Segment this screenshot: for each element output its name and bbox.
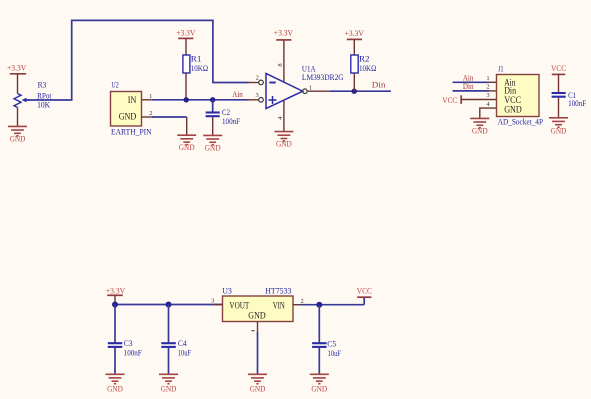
svg-text:3: 3 [486, 92, 489, 99]
svg-text:10KΩ: 10KΩ [191, 63, 208, 73]
pin 3 (U3 VOUT) [211, 298, 222, 305]
svg-text:1: 1 [486, 75, 489, 82]
ground (J1 pin 4) [470, 118, 489, 135]
op-amp U1A LM393DR2G [259, 64, 344, 109]
wire R2 bottom [353, 73, 355, 91]
svg-text:10K: 10K [37, 99, 51, 109]
ground (C1) [549, 118, 568, 136]
svg-text:100nF: 100nF [124, 348, 142, 358]
svg-text:+3.3V: +3.3V [274, 28, 293, 37]
svg-text:Din: Din [372, 80, 386, 90]
junction (R1 / Ain) [184, 97, 189, 102]
svg-text:U3: U3 [222, 286, 232, 296]
svg-text:R3: R3 [38, 79, 47, 89]
ground (U3 GND) [248, 374, 267, 393]
svg-text:10uF: 10uF [328, 348, 341, 358]
power VCC (J1 pin 3) [442, 95, 496, 105]
resistor R1 [183, 54, 208, 73]
wire rail (+3.3V to U3 pin 3) [115, 304, 223, 306]
power +3.3V (R1) [176, 28, 195, 55]
junction (R2 / output) [352, 89, 357, 94]
pin 4 (U1 GND) [277, 100, 284, 131]
svg-text:GND: GND [311, 384, 327, 393]
pin 4 (J1 GND) [480, 108, 497, 118]
connector J1 AD_Socket_4P [497, 64, 544, 127]
ground (U1 pin 4) [274, 132, 293, 149]
svg-text:GND: GND [504, 104, 522, 114]
svg-text:8: 8 [277, 63, 284, 66]
svg-text:AD_Socket_4P: AD_Socket_4P [498, 117, 544, 127]
svg-text:1: 1 [309, 84, 312, 91]
capacitor C4 [161, 305, 191, 375]
svg-text:+3.3V: +3.3V [7, 64, 27, 73]
svg-text:10KΩ: 10KΩ [359, 63, 376, 73]
svg-text:3: 3 [255, 92, 258, 99]
svg-text:GND: GND [551, 126, 567, 135]
wire R1 bottom [185, 73, 187, 100]
wire Din stub (J1 pin 2) [453, 90, 497, 92]
capacitor C5 [312, 305, 341, 375]
svg-text:4: 4 [486, 101, 490, 108]
svg-text:1: 1 [149, 93, 152, 100]
svg-text:2: 2 [149, 110, 152, 117]
power +3.3V (R2) [345, 29, 364, 55]
svg-text:GND: GND [179, 143, 195, 152]
svg-text:HT7533: HT7533 [265, 286, 291, 296]
pin 2 (U2 GND) + wire [142, 110, 187, 135]
svg-text:GND: GND [250, 384, 266, 393]
svg-text:100nF: 100nF [222, 116, 240, 126]
svg-text:VCC: VCC [504, 95, 521, 105]
svg-text:EARTH_PIN: EARTH_PIN [111, 126, 152, 136]
ground (C4) [159, 374, 178, 393]
svg-text:U2: U2 [111, 80, 118, 90]
svg-text:2: 2 [486, 84, 489, 91]
power VCC (U3 VIN side) [357, 287, 372, 305]
svg-text:+3.3V: +3.3V [176, 28, 195, 37]
pin numbers (J1) [486, 75, 490, 108]
capacitor C1 [552, 90, 587, 118]
svg-text:IN: IN [128, 95, 137, 105]
svg-text:GND: GND [205, 143, 221, 152]
pin 1 (U1 output) + wire [307, 84, 391, 91]
junction (C2 / Ain) [210, 97, 215, 102]
potentiometer R3 [14, 79, 52, 109]
svg-text:GND: GND [10, 134, 26, 143]
svg-text:Din: Din [463, 81, 474, 91]
wire net Ain (U2 pin1 to U1 pin3) [152, 99, 249, 101]
component U2 EARTH_PIN [111, 80, 152, 137]
svg-text:10uF: 10uF [178, 348, 191, 358]
power +3.3V (R3 pot) [7, 64, 27, 94]
svg-text:+3.3V: +3.3V [345, 29, 364, 38]
svg-text:VOUT: VOUT [229, 300, 249, 310]
svg-text:GND: GND [248, 310, 266, 320]
svg-text:VIN: VIN [273, 300, 286, 310]
junction (C3 / rail) [112, 302, 118, 308]
svg-text:100nF: 100nF [568, 98, 586, 108]
svg-text:VCC: VCC [357, 287, 372, 296]
ground (C5) [310, 374, 329, 393]
ground (U2 pin 2) [177, 135, 196, 152]
svg-text:4: 4 [277, 116, 284, 120]
capacitor C3 [108, 305, 142, 375]
svg-text:LM393DR2G: LM393DR2G [302, 72, 344, 82]
wire wiper to op-amp pin 2 [26, 20, 249, 100]
svg-text:VCC: VCC [551, 64, 566, 73]
ground (C2) [203, 135, 222, 152]
wire Ain stub (J1 pin 1) [453, 81, 497, 83]
ground (C3) [106, 374, 125, 393]
svg-text:VCC: VCC [442, 96, 457, 105]
junction (C5 / wire) [316, 302, 322, 308]
power +3.3V (U1 pin 8) [274, 28, 293, 40]
svg-text:2: 2 [256, 74, 259, 81]
svg-text:3: 3 [211, 298, 214, 305]
resistor R2 [351, 54, 377, 73]
power VCC (C1) [551, 64, 566, 92]
svg-text:GND: GND [276, 140, 292, 149]
power +3.3V (U3 rail) [106, 286, 125, 304]
svg-text:GND: GND [472, 126, 488, 135]
svg-text:+3.3V: +3.3V [106, 286, 125, 295]
svg-text:J1: J1 [498, 64, 503, 74]
ground (R3 pot) [8, 107, 27, 143]
pin 1 (U2 IN) [142, 93, 154, 100]
regulator U3 HT7533 [222, 286, 293, 322]
pin 8 (U1 V+) [277, 40, 284, 82]
pin 2 (U3 VIN) + wire [293, 298, 364, 305]
pin 1 (U3 GND) [251, 322, 257, 375]
svg-text:GND: GND [119, 112, 137, 122]
svg-text:GND: GND [161, 384, 177, 393]
svg-text:GND: GND [107, 384, 123, 393]
junction (C4 / rail) [166, 302, 172, 308]
svg-text:Ain: Ain [232, 89, 243, 99]
capacitor C2 [206, 100, 241, 136]
